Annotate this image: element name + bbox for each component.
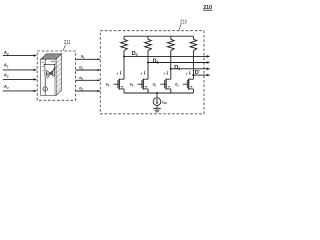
wire b0: [76, 58, 101, 60]
svg-text:I: I: [117, 72, 118, 76]
inner right drop wire: [53, 76, 55, 95]
ground: [153, 108, 161, 112]
inner wire right drop: [53, 64, 55, 70]
inner current source: [43, 87, 47, 91]
inner transistor right: [51, 70, 55, 77]
node D2 output line: [171, 68, 210, 71]
wire b3: [76, 90, 101, 92]
current label I2: [164, 71, 168, 76]
inner tail wire: [44, 76, 46, 86]
svg-text:b0: b0: [106, 83, 110, 88]
drain wire M1: [123, 56, 125, 79]
svg-text:b0: b0: [81, 55, 85, 60]
inner junction dots: [44, 64, 45, 65]
transistor M3: [160, 79, 171, 93]
inner wire left drop: [44, 64, 46, 70]
tail wire: [156, 93, 158, 98]
svg-text:D1: D1: [153, 59, 159, 65]
node D0 output line: [124, 55, 210, 58]
node D2 junction: [170, 68, 172, 70]
svg-text:A0: A0: [3, 50, 9, 56]
wire b1: [76, 69, 101, 71]
inner transistor left: [45, 70, 49, 77]
cell cube side face: [56, 54, 62, 96]
svg-text:211: 211: [64, 40, 70, 46]
transistor M1: [113, 79, 124, 93]
input wire A3: [3, 90, 37, 92]
svg-text:A2: A2: [3, 73, 9, 79]
svg-text:D2: D2: [174, 65, 180, 71]
input wire A2: [3, 78, 37, 80]
tail junction: [156, 92, 158, 94]
top supply rail: [124, 35, 193, 37]
current label I0: [117, 71, 121, 76]
inner cross wires: [46, 70, 54, 77]
inner programming arrow: [47, 67, 55, 78]
svg-text:b1: b1: [153, 83, 157, 88]
inner ground wire: [44, 91, 46, 95]
inner wire top rail: [43, 63, 55, 65]
node D' junction: [192, 74, 194, 76]
inner tick marks: [42, 62, 55, 71]
transistor M4: [183, 79, 194, 93]
node D1 junction: [147, 61, 149, 63]
drain wire M3: [170, 69, 172, 79]
svg-text:D0: D0: [132, 51, 138, 57]
resistor R3: [168, 36, 175, 69]
drain wire M4: [192, 75, 194, 79]
svg-text:A1: A1: [3, 63, 9, 69]
cell cube front face: [41, 59, 56, 95]
drain wire M2: [147, 63, 149, 80]
transistor M2: [137, 79, 148, 93]
current label I3: [186, 71, 190, 76]
dashed box 213 readout block: [100, 31, 204, 114]
ground wire: [156, 105, 158, 108]
inner wire left top: [44, 59, 46, 64]
svg-text:I: I: [186, 72, 187, 76]
resistor R4: [190, 36, 197, 75]
node D1 output line: [148, 61, 210, 64]
block label 211: [63, 40, 70, 51]
current source ISS: [153, 98, 161, 106]
svg-text:b1: b1: [175, 83, 179, 88]
current label I1: [141, 71, 145, 76]
svg-text:b0: b0: [130, 83, 134, 88]
cell cube top face hatched: [41, 54, 62, 59]
source rail: [124, 92, 193, 94]
svg-text:A3: A3: [3, 84, 9, 90]
dashed box 211 cell block: [37, 51, 75, 100]
svg-text:I: I: [141, 72, 142, 76]
resistor R2: [145, 36, 152, 62]
node D' output line: [193, 74, 210, 77]
node D0 junction: [123, 55, 125, 57]
block label 213: [179, 19, 187, 30]
input wire A0: [3, 54, 37, 56]
svg-text:I: I: [164, 72, 165, 76]
wire b2: [76, 79, 101, 81]
resistor R1: [121, 36, 128, 56]
svg-text:ISS: ISS: [162, 100, 167, 105]
input wire A1: [3, 69, 37, 71]
figure number 210: [203, 5, 213, 11]
